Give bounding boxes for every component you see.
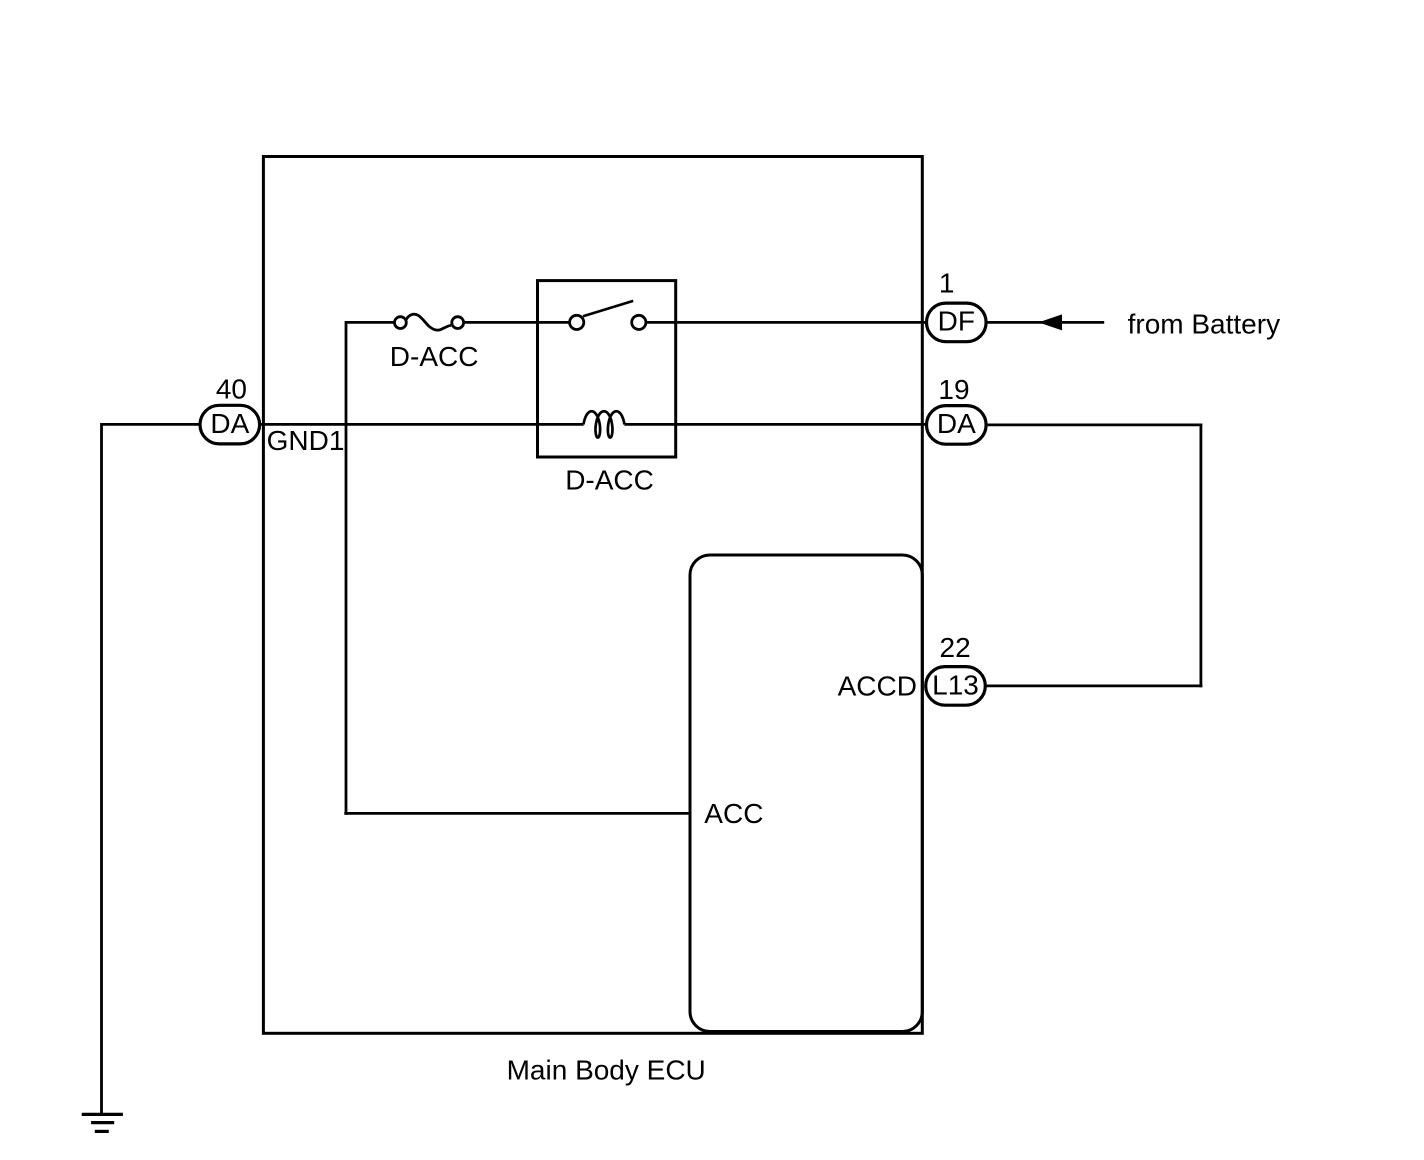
svg-text:DA: DA bbox=[210, 408, 249, 439]
svg-text:40: 40 bbox=[216, 374, 247, 405]
svg-text:22: 22 bbox=[940, 632, 971, 663]
svg-text:DF: DF bbox=[938, 306, 975, 337]
svg-text:D-ACC: D-ACC bbox=[565, 465, 654, 496]
svg-text:19: 19 bbox=[938, 374, 969, 405]
svg-text:ACCD: ACCD bbox=[838, 671, 917, 702]
svg-text:Main Body ECU: Main Body ECU bbox=[507, 1055, 706, 1086]
svg-text:D-ACC: D-ACC bbox=[390, 341, 479, 372]
svg-text:1: 1 bbox=[939, 268, 955, 299]
svg-text:L13: L13 bbox=[932, 669, 979, 700]
svg-text:GND1: GND1 bbox=[267, 425, 345, 456]
svg-text:DA: DA bbox=[937, 408, 976, 439]
svg-text:ACC: ACC bbox=[704, 798, 763, 829]
svg-text:from Battery: from Battery bbox=[1128, 308, 1280, 339]
